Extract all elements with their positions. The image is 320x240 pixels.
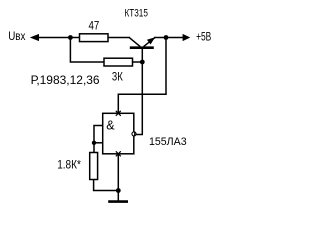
svg-text:Р,1983,12,36: Р,1983,12,36 [31, 75, 100, 87]
svg-text:155ЛА3: 155ЛА3 [149, 136, 187, 148]
svg-text:+5В: +5В [196, 29, 211, 43]
svg-text:&: & [106, 119, 115, 133]
svg-text:1.8К*: 1.8К* [57, 160, 81, 172]
svg-text:3К: 3К [112, 72, 123, 84]
svg-text:Uвх: Uвх [8, 29, 25, 43]
svg-text:КТ315: КТ315 [125, 8, 148, 20]
svg-text:47: 47 [89, 20, 100, 32]
